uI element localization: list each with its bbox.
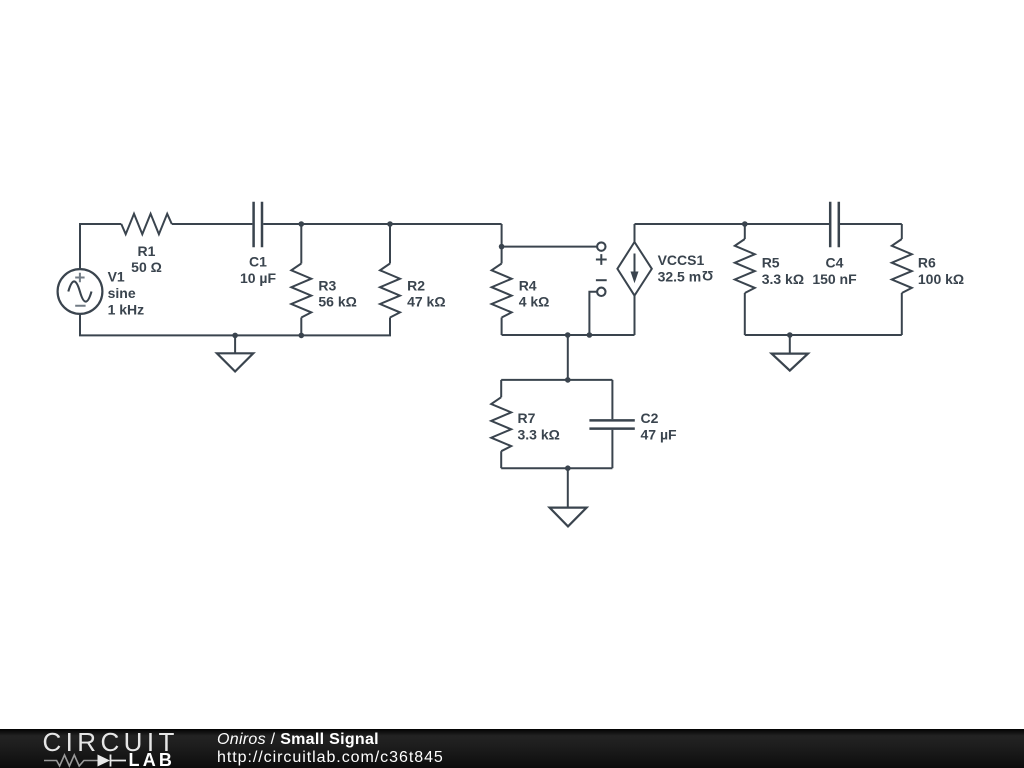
svg-text:VCCS1: VCCS1	[658, 252, 705, 268]
svg-text:47 µF: 47 µF	[641, 427, 678, 443]
svg-text:32.5 m: 32.5 m	[658, 268, 702, 284]
wire R7 top lead	[500, 380, 502, 397]
node dot ground1	[232, 333, 238, 339]
wire R6 bottom lead	[901, 293, 903, 335]
svg-text:R6: R6	[918, 255, 936, 271]
svg-text:R7: R7	[518, 410, 536, 426]
svg-text:R5: R5	[762, 255, 780, 271]
right rail from VCCS top to C4 left plate	[635, 223, 830, 225]
node dot R7 box bottom	[565, 465, 571, 471]
svg-text:100 kΩ: 100 kΩ	[918, 271, 964, 287]
wire top-left from V1 top to R1 left	[80, 224, 121, 269]
svg-text:150 nF: 150 nF	[812, 271, 857, 287]
bottom rail 3 (R5 to R6)	[745, 334, 902, 336]
wire C4 right plate to R6	[840, 223, 902, 225]
svg-text:1 kHz: 1 kHz	[108, 301, 145, 317]
+ input terminal circle	[597, 242, 605, 250]
svg-text:56 kΩ: 56 kΩ	[318, 294, 356, 310]
svg-text:47 kΩ: 47 kΩ	[407, 294, 445, 310]
wire R3 top lead	[300, 224, 302, 264]
svg-text:C2: C2	[641, 410, 659, 426]
capacitor C1	[254, 202, 262, 248]
wire R6 top lead	[901, 224, 903, 239]
node dot R5 top	[742, 221, 748, 227]
wire from - terminal down to rail	[589, 292, 597, 335]
svg-text:V1: V1	[108, 269, 125, 285]
svg-text:50 Ω: 50 Ω	[131, 259, 162, 275]
plus sign	[596, 254, 607, 265]
VCCS1 dependent current source diamond	[617, 242, 651, 296]
resistor R4	[492, 264, 512, 318]
logo LAB	[129, 751, 176, 768]
wire R4 bottom lead	[501, 318, 503, 336]
wire rail2 down to R7 box	[567, 335, 569, 380]
svg-text:R4: R4	[519, 277, 537, 293]
ground 1	[217, 335, 253, 371]
label R2 47kΩ	[407, 277, 445, 309]
wire C2 bottom lead	[611, 430, 613, 468]
wire R1 to C1	[172, 223, 253, 225]
svg-text:R1: R1	[138, 243, 156, 259]
logo CIRCUIT	[43, 729, 179, 755]
wire R4 top lead	[501, 224, 503, 264]
label V1 sine 1 kHz	[108, 269, 145, 318]
label VCCS1 32.5 m℧	[658, 252, 714, 284]
voltage source V1	[58, 269, 103, 314]
wire C2 top lead	[611, 380, 613, 419]
logo diode	[98, 755, 111, 767]
node dot rail2 to R7	[565, 332, 571, 338]
footer url	[217, 750, 444, 766]
wire R3 bottom lead	[300, 318, 302, 336]
svg-text:4 kΩ: 4 kΩ	[519, 294, 550, 310]
label R3 56kΩ	[318, 277, 356, 309]
resistor R1	[121, 214, 172, 234]
resistor R7	[491, 397, 511, 451]
VCCS1 arrow	[634, 254, 636, 275]
bottom rail 2 (R4 bottom to VCCS bottom)	[502, 334, 635, 336]
label R6 100kΩ	[918, 255, 964, 287]
ground 3	[772, 335, 808, 371]
label R5 3.3kΩ	[762, 255, 804, 287]
R7/C2 box bottom rail	[501, 467, 612, 469]
wire C1 to R4 corner	[263, 223, 501, 225]
label R7 3.3kΩ	[518, 410, 560, 442]
node dot rail2 minus wire	[587, 332, 593, 338]
wire R2 top lead	[389, 224, 391, 264]
wire R5 bottom lead	[744, 293, 746, 335]
node dot R7 box top	[565, 377, 571, 383]
bottom rail 1 (V1 to R2 bottom)	[80, 314, 390, 335]
R7/C2 box top rail	[501, 379, 612, 381]
svg-text:C1: C1	[249, 254, 267, 270]
wire to + input terminal	[502, 246, 597, 248]
svg-text:R2: R2	[407, 277, 425, 293]
wire VCCS1 top lead	[634, 224, 636, 242]
footer bar	[0, 729, 1024, 768]
resistor R3	[291, 264, 311, 318]
label C2 47µF	[641, 410, 678, 442]
svg-text:3.3 kΩ: 3.3 kΩ	[762, 271, 804, 287]
resistor R2	[380, 264, 400, 318]
ground 2	[550, 468, 587, 526]
resistor R6	[892, 239, 912, 293]
resistor R5	[735, 239, 755, 293]
logo wire + resistor zigzag	[44, 755, 98, 766]
svg-text:3.3 kΩ: 3.3 kΩ	[518, 427, 560, 443]
node dot R4 / + wire junction	[499, 244, 505, 250]
node dot ground3	[787, 332, 793, 338]
wire R7 bottom lead	[500, 451, 502, 468]
- input terminal circle	[597, 288, 605, 296]
svg-text:R3: R3	[318, 277, 336, 293]
label R4 4kΩ	[519, 277, 550, 309]
svg-text:10 µF: 10 µF	[240, 270, 277, 286]
logo schematic doodle	[44, 753, 128, 768]
wire R5 top lead	[744, 224, 746, 239]
capacitor C2	[589, 420, 634, 428]
capacitor C4	[830, 202, 839, 248]
node dot at R3 top	[299, 221, 305, 227]
wire VCCS1 bottom lead	[634, 296, 636, 335]
node dot at R2 top	[387, 221, 393, 227]
footer title Oniros / Small Signal	[217, 732, 379, 748]
minus sign	[596, 279, 607, 281]
svg-text:sine: sine	[108, 285, 136, 301]
label R1 50Ω	[131, 243, 162, 275]
label C4 150nF	[812, 255, 857, 287]
svg-text:Ω: Ω	[702, 268, 713, 284]
svg-text:C4: C4	[826, 255, 844, 271]
label C1 10µF	[240, 254, 277, 286]
node dot R3 bottom	[299, 333, 305, 339]
